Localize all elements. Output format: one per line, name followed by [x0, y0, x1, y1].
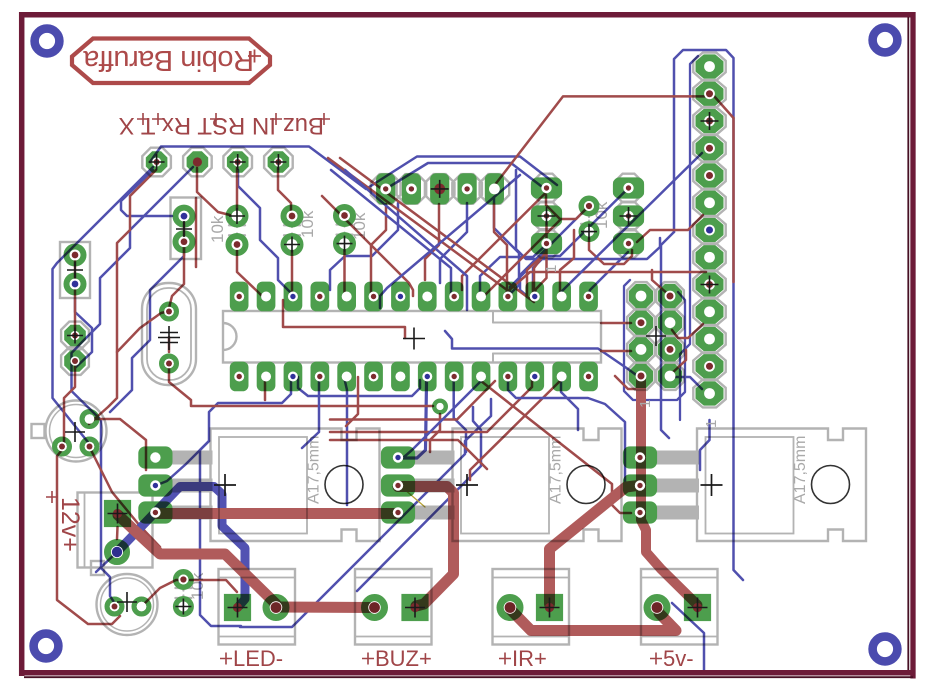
svg-text:BUZ+: BUZ+	[375, 646, 432, 671]
svg-text:Robin Baruffa: Robin Baruffa	[82, 44, 254, 76]
svg-text:A17,5mm: A17,5mm	[792, 436, 809, 504]
svg-text:Buz IN RST Rx T X: Buz IN RST Rx T X	[119, 112, 324, 139]
svg-text:LED-: LED-	[233, 646, 283, 671]
svg-text:12v+: 12v+	[56, 497, 84, 552]
svg-text:1: 1	[703, 420, 720, 428]
svg-text:1: 1	[543, 265, 560, 273]
svg-text:10k: 10k	[208, 215, 227, 243]
svg-text:5v-: 5v-	[663, 646, 694, 671]
svg-text:A17,5mm: A17,5mm	[306, 436, 323, 504]
svg-text:IR+: IR+	[512, 646, 547, 671]
svg-text:1: 1	[637, 400, 654, 408]
